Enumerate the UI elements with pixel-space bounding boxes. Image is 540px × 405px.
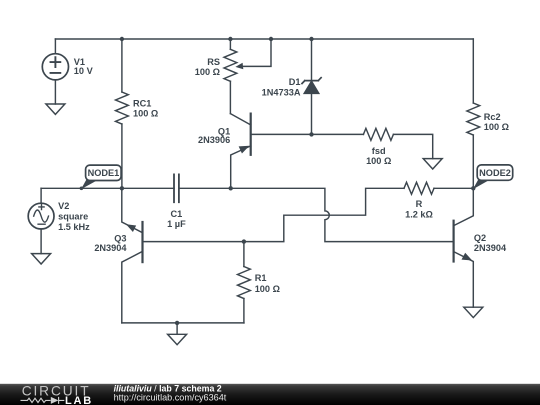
svg-text:NODE2: NODE2 xyxy=(479,168,511,178)
label RC1 value xyxy=(133,98,158,118)
rheostat RS xyxy=(224,39,237,114)
svg-text:2N3904: 2N3904 xyxy=(94,243,127,253)
wire NODE1 row (V2 to C1) xyxy=(41,187,174,189)
svg-text:100 Ω: 100 Ω xyxy=(366,156,391,166)
svg-text:C1: C1 xyxy=(171,209,183,219)
svg-text:RS: RS xyxy=(207,57,220,67)
svg-text:V2: V2 xyxy=(58,201,69,211)
ground below V1 xyxy=(46,104,65,114)
resistor RC1 xyxy=(116,39,129,188)
junction dot top rail at D1 xyxy=(309,37,313,41)
svg-text:1 µF: 1 µF xyxy=(167,219,186,229)
wire R1 top to resistor R (staircase) xyxy=(244,188,404,241)
svg-text:Rc2: Rc2 xyxy=(484,112,501,122)
footer logo resistor-diode line xyxy=(21,397,65,404)
svg-text:square: square xyxy=(58,212,88,222)
svg-text:Q2: Q2 xyxy=(474,233,486,243)
svg-text:100 Ω: 100 Ω xyxy=(255,284,280,294)
svg-text:10 V: 10 V xyxy=(74,66,94,76)
label R1 value xyxy=(255,273,280,294)
label Q1 value xyxy=(198,127,230,146)
svg-text:R: R xyxy=(416,199,423,209)
resistor Rc2 xyxy=(467,39,480,188)
svg-text:LAB: LAB xyxy=(65,395,93,405)
svg-text:100 Ω: 100 Ω xyxy=(133,109,158,119)
junction dot top rail at RC1 xyxy=(120,37,124,41)
wire bottom rail (Q3 collector to R1 bottom) xyxy=(122,322,244,324)
label C1 value xyxy=(167,209,186,229)
svg-text:NODE1: NODE1 xyxy=(88,168,120,178)
junction dot top rail at RS xyxy=(228,37,232,41)
voltage source V2 (function generator) xyxy=(28,188,54,253)
svg-text:100 Ω: 100 Ω xyxy=(195,67,220,77)
ground below fsd xyxy=(423,159,442,169)
capacitor C1 xyxy=(174,174,179,202)
svg-text:RC1: RC1 xyxy=(133,98,151,108)
label V2 value xyxy=(58,201,90,232)
label Rc2 value xyxy=(484,112,509,132)
junction dot NODE1 at RC1/Q3 xyxy=(120,186,124,190)
junction dot R1 top / Q3 base xyxy=(242,239,246,243)
svg-text:1.5 kHz: 1.5 kHz xyxy=(58,222,90,232)
resistor fsd xyxy=(312,128,433,158)
junction dot top rail at wiper xyxy=(269,37,273,41)
svg-text:fsd: fsd xyxy=(372,146,386,156)
transistor Q3 (2N3904 NPN) xyxy=(122,188,143,323)
node flag NODE2 xyxy=(473,165,513,189)
label RS value xyxy=(195,57,220,77)
label D1 value xyxy=(262,77,301,98)
wire top supply rail xyxy=(55,38,473,40)
node flag NODE1 xyxy=(80,165,122,190)
junction dot NODE1 at Q1 emitter xyxy=(229,186,233,190)
wire NODE1 row (C1 east, down past hop, to Q2 base) xyxy=(179,188,454,241)
label Q3 value xyxy=(94,233,127,253)
label R value xyxy=(405,199,433,220)
wire Q3 base to R1 top xyxy=(143,241,244,243)
svg-text:2N3906: 2N3906 xyxy=(198,135,230,145)
footer bar xyxy=(0,384,540,405)
svg-text:2N3904: 2N3904 xyxy=(474,243,507,253)
svg-text:1N4733A: 1N4733A xyxy=(262,88,301,98)
wire RS wiper arm xyxy=(244,39,272,66)
ground below V2 xyxy=(32,254,51,264)
ground below bottom rail xyxy=(168,334,187,344)
svg-text:http://circuitlab.com/cy6364t: http://circuitlab.com/cy6364t xyxy=(114,393,227,403)
voltage source V1 xyxy=(42,39,68,104)
svg-text:R1: R1 xyxy=(255,273,267,283)
junction dot D1 bottom / Q1 base / fsd xyxy=(309,132,313,136)
junction dot NODE2 xyxy=(471,186,475,190)
resistor R xyxy=(404,182,473,194)
svg-text:100 Ω: 100 Ω xyxy=(484,122,509,132)
transistor Q2 (2N3904 NPN) xyxy=(454,188,474,307)
label Q2 value xyxy=(474,233,507,253)
svg-text:Q3: Q3 xyxy=(114,233,126,243)
zener diode D1 xyxy=(302,39,321,134)
ground below Q2 xyxy=(464,307,483,317)
resistor R1 xyxy=(237,242,250,323)
arrowhead of RS wiper xyxy=(235,63,243,70)
junction dot bottom rail ground xyxy=(175,321,179,325)
svg-text:D1: D1 xyxy=(289,77,301,87)
label V1 value xyxy=(74,57,94,76)
transistor Q1 (2N3906 PNP) xyxy=(230,114,311,189)
label fsd value xyxy=(366,146,391,166)
ground stub on bottom rail xyxy=(176,323,178,334)
svg-text:1.2 kΩ: 1.2 kΩ xyxy=(405,210,433,220)
